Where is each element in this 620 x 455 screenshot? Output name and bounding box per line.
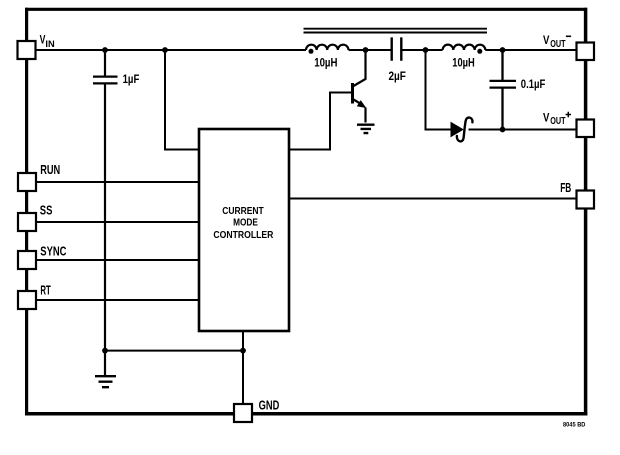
svg-text:V: V: [543, 33, 550, 47]
svg-text:OUT: OUT: [550, 39, 565, 50]
svg-text:V: V: [543, 110, 550, 124]
svg-text:OUT: OUT: [550, 116, 565, 127]
svg-text:10µH: 10µH: [452, 58, 475, 70]
svg-text:10µH: 10µH: [314, 58, 337, 70]
svg-text:8045 BD: 8045 BD: [563, 422, 586, 429]
svg-text:1µF: 1µF: [123, 74, 140, 86]
svg-text:CURRENT: CURRENT: [222, 206, 264, 217]
svg-text:MODE: MODE: [233, 218, 258, 229]
svg-text:0.1µF: 0.1µF: [521, 79, 546, 91]
svg-text:IN: IN: [45, 39, 54, 50]
svg-text:RT: RT: [40, 282, 50, 297]
svg-text:2µF: 2µF: [389, 71, 406, 83]
svg-text:GND: GND: [259, 398, 280, 413]
svg-text:SYNC: SYNC: [40, 243, 67, 258]
svg-text:SS: SS: [40, 203, 53, 218]
svg-text:RUN: RUN: [40, 162, 60, 177]
svg-text:FB: FB: [560, 180, 571, 195]
svg-text:CONTROLLER: CONTROLLER: [213, 230, 274, 241]
